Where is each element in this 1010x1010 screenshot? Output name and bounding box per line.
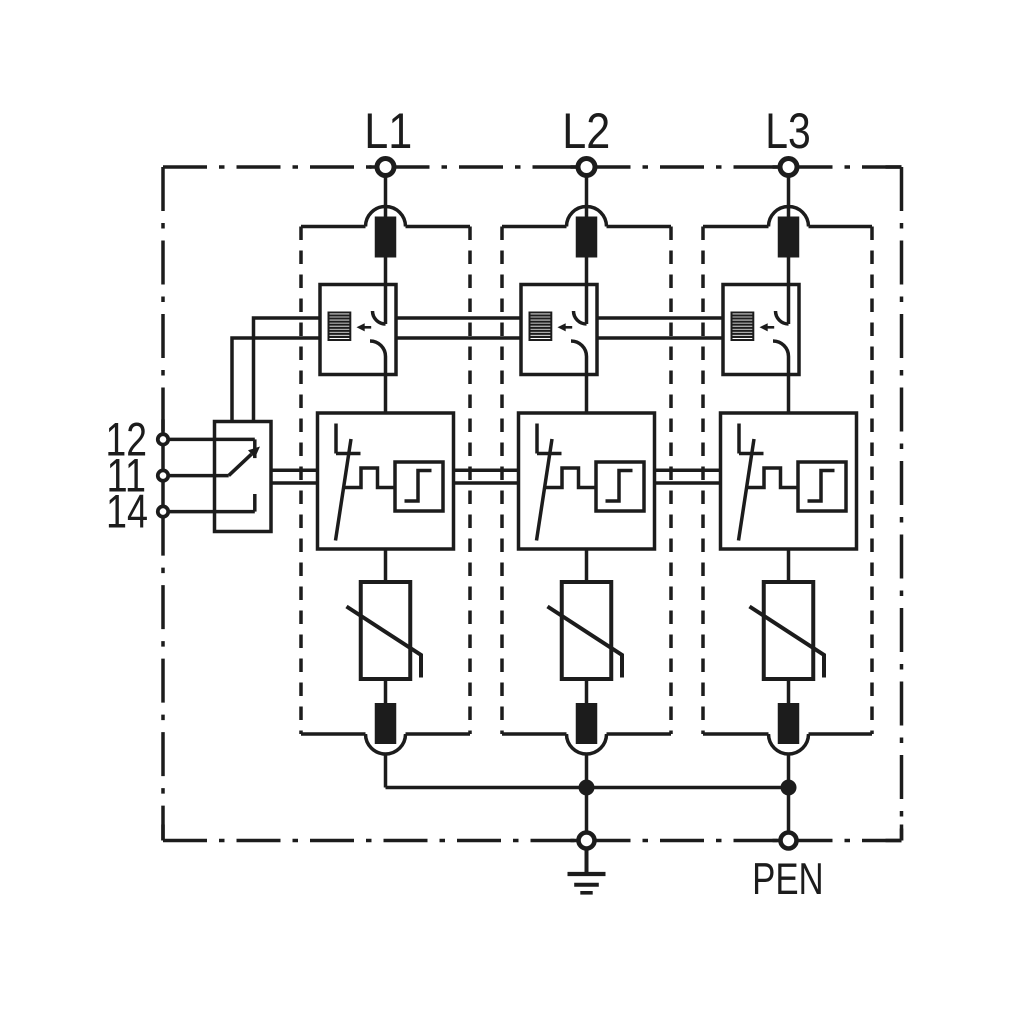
varistor (module 2) [548, 582, 623, 679]
changeover switch blade with arrow [229, 447, 260, 476]
terminal L1 [377, 159, 394, 176]
label L1 [364, 102, 412, 159]
monitoring device (module 2) [519, 413, 655, 549]
trigger bus wire lower (module1-module2) [396, 336, 521, 340]
wire terminal 14 to contact [168, 510, 255, 514]
monitor bus lower (module1-module2) [454, 481, 519, 485]
wire bottom contact to PE collector (module 2) [585, 754, 589, 788]
contact 14 stub [253, 494, 257, 512]
plug-in contact top (module 3) [769, 207, 809, 258]
label 14 [106, 486, 148, 539]
label 11 [107, 450, 147, 503]
label PEN [752, 855, 824, 904]
wire varistor to bottom contact (module 2) [585, 679, 589, 709]
wire L1 terminal to protection path [384, 167, 388, 324]
plug-in contact bottom (module 1) [366, 703, 406, 754]
svg-text:14: 14 [106, 486, 148, 539]
label L2 [562, 102, 610, 159]
junction dot at module 3 collector [781, 780, 797, 796]
svg-text:L3: L3 [765, 102, 811, 159]
remote signalling contact box [215, 422, 272, 532]
hatched electrode block (module 3) [732, 313, 754, 341]
earth (ground) symbol [568, 849, 606, 893]
plug-in contact top (module 1) [366, 207, 406, 258]
wire trigger bus to contact box (upper) [254, 318, 321, 422]
wire terminal 11 to contact [168, 474, 229, 478]
wire monitor to varistor (module 3) [787, 549, 791, 582]
label L3 [765, 102, 811, 159]
wire terminal 12 to contact [168, 438, 255, 442]
spark gap with disconnector (module 2) [521, 285, 597, 414]
label 12 [106, 413, 148, 466]
SPD module 3 enclosure (dashed) [703, 227, 872, 735]
earth terminal circle [579, 833, 595, 849]
wire monitor to varistor (module 1) [384, 549, 388, 582]
SPD module 2 enclosure (dashed) [502, 227, 671, 735]
monitor bus upper (module2-module3) [655, 469, 721, 473]
plug-in contact bottom (module 2) [567, 703, 607, 754]
spark gap with disconnector (module 1) [320, 285, 396, 414]
monitor bus upper (module1-module2) [454, 469, 519, 473]
wire trigger bus to contact box (lower) [232, 338, 320, 422]
trigger bus wire upper (module2-module3) [597, 316, 723, 320]
disconnect arrow (module 2) [558, 323, 573, 331]
wire L3 terminal to protection path [787, 167, 791, 324]
monitor bus lower (module2-module3) [655, 481, 721, 485]
hatched electrode block (module 1) [329, 313, 351, 341]
monitoring device (module 1) [318, 413, 454, 549]
trigger bus wire upper (module1-module2) [396, 316, 521, 320]
wire collector to PEN terminal [787, 788, 791, 833]
wire varistor to bottom contact (module 1) [384, 679, 388, 709]
wire collector to earth terminal [585, 788, 589, 833]
terminal L3 [780, 159, 797, 176]
svg-text:L2: L2 [562, 102, 610, 159]
hatched electrode block (module 2) [530, 313, 552, 341]
disconnect arrow (module 3) [760, 323, 775, 331]
plug-in contact top (module 2) [567, 207, 607, 258]
svg-text:PEN: PEN [752, 855, 824, 904]
trigger bus wire lower (module2-module3) [597, 336, 723, 340]
terminal 12 [158, 434, 168, 444]
varistor (module 3) [750, 582, 825, 679]
plug-in contact bottom (module 3) [769, 703, 809, 754]
wire monitor to varistor (module 2) [585, 549, 589, 582]
wire L2 terminal to protection path [585, 167, 589, 324]
SPD module 1 enclosure (dashed) [301, 227, 470, 735]
varistor (module 1) [347, 582, 422, 679]
svg-text:L1: L1 [364, 102, 412, 159]
PE collector wire [386, 786, 789, 790]
contact 12 stub [253, 439, 257, 458]
spark gap with disconnector (module 3) [723, 285, 799, 414]
monitoring device (module 3) [721, 413, 857, 549]
contact box output wire upper [271, 469, 318, 473]
disconnect arrow (module 1) [357, 323, 372, 331]
terminal 11 [158, 470, 168, 480]
equipment enclosure frame (dash-dot boundary) [163, 167, 902, 841]
terminal L2 [578, 159, 595, 176]
junction dot at module 2 collector [579, 780, 595, 796]
terminal PEN [781, 833, 797, 849]
wire bottom contact to PE collector (module 1) [384, 754, 388, 788]
wire bottom contact to PE collector (module 3) [787, 754, 791, 788]
contact box output wire lower [271, 481, 318, 485]
wire varistor to bottom contact (module 3) [787, 679, 791, 709]
terminal 14 [158, 506, 168, 516]
